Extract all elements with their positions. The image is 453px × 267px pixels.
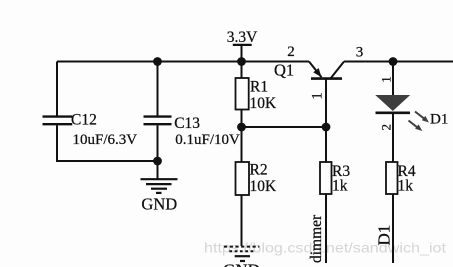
svg-text:GND: GND [223,261,260,267]
resistor R4 [386,162,416,194]
svg-text:1k: 1k [398,177,414,194]
node junction top rail / C13 [153,57,162,66]
node junction cap rail / GND [153,157,162,166]
svg-text:2: 2 [287,44,295,60]
wire R1 bottom [241,110,243,128]
wire Q1 base [325,79,327,127]
svg-text:0.1uF/10V: 0.1uF/10V [175,132,240,148]
svg-text:D1: D1 [430,111,448,127]
svg-text:R2: R2 [250,162,268,179]
svg-text:C12: C12 [71,112,97,129]
resistor R3 [320,162,350,194]
transistor Q1 [274,61,344,80]
node junction mid rail / base [322,123,331,132]
svg-text:10K: 10K [250,95,278,112]
wire C12 branch bottom [57,125,158,161]
wire D1 to R4 [392,113,394,162]
wire top rail [57,61,309,63]
svg-text:GND: GND [141,194,177,213]
wire R3 bottom [325,194,327,263]
power 3.3V [227,29,258,62]
svg-text:C13: C13 [174,115,200,132]
wire R2 top [241,127,243,162]
svg-text:R1: R1 [250,79,268,96]
node junction mid rail / R2 [237,123,246,132]
wire R3 top [325,127,327,162]
svg-text:2: 2 [378,124,393,131]
wire R1 top [241,62,243,79]
svg-text:D1: D1 [375,225,394,246]
svg-text:dimmer: dimmer [308,214,325,263]
svg-text:1: 1 [309,92,325,100]
svg-text:10K: 10K [250,178,278,195]
resistor R1 [236,78,278,112]
svg-text:Q1: Q1 [274,61,294,80]
wire R2 bottom [241,195,243,246]
capacitor C13 [144,115,241,148]
svg-text:1k: 1k [332,177,348,194]
svg-text:3: 3 [356,45,364,61]
svg-text:10uF/6.3V: 10uF/6.3V [73,132,138,148]
resistor R2 [236,162,278,196]
capacitor C12 [43,112,138,149]
wire collector rail [344,61,453,63]
svg-text:3.3V: 3.3V [227,29,258,46]
wire C13 branch top [157,62,159,116]
node junction collector rail / D1 [389,57,398,66]
wire R4 bottom [392,194,394,263]
wire D1 top [392,62,394,96]
ground GND [141,161,178,213]
node junction top rail / R1 [237,57,246,66]
wire mid rail [242,126,327,128]
diode D1 (LED) [375,95,448,131]
wire C12 branch top [56,62,58,116]
ground under R2 [223,247,260,267]
svg-text:1: 1 [379,76,394,83]
wire C13 branch bottom [157,125,159,161]
